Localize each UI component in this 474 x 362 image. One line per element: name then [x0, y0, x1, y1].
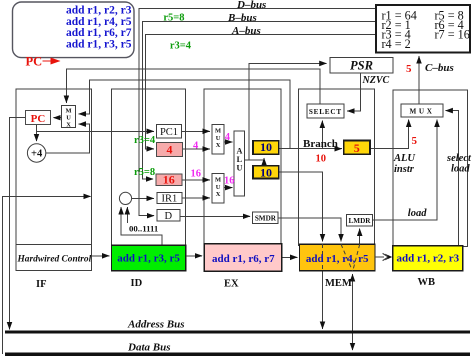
svg-text:select: select [446, 153, 472, 164]
wire ALU result up to latch10 [263, 158, 265, 166]
svg-text:10: 10 [316, 154, 327, 165]
wire LMDR to WB MUX [372, 120, 437, 220]
MUX1 label [215, 128, 221, 150]
MEMWB register box [393, 246, 463, 271]
svg-text:ALU: ALU [393, 153, 416, 164]
wire D to SMDR [180, 215, 250, 217]
svg-text:M: M [215, 128, 221, 135]
stage box IF [16, 89, 91, 271]
latch 16 box [156, 174, 182, 185]
svg-text:X: X [216, 142, 221, 149]
svg-text:Branch: Branch [303, 138, 338, 150]
IDEX register box [204, 244, 282, 271]
svg-text:4: 4 [167, 143, 173, 157]
IFID register box [111, 245, 185, 270]
wire hardwired control to IFID register [91, 255, 109, 257]
svg-text:B–bus: B–bus [227, 12, 257, 24]
svg-text:MEM: MEM [325, 278, 352, 289]
wire D-bus [139, 9, 376, 216]
PC pointer red arrow [43, 60, 60, 62]
svg-text:5: 5 [354, 141, 360, 155]
ALU box [234, 131, 244, 196]
wire IFID reg to mask circle [121, 207, 162, 245]
wire EXMEM to MEMWB feathered arrow [375, 256, 384, 258]
wire IFID to IDEX [186, 255, 202, 257]
green value labels [134, 13, 192, 178]
adder +4 circle [27, 144, 45, 162]
stage box EX [204, 89, 281, 246]
stage box ID [111, 89, 185, 246]
svg-text:load: load [408, 208, 427, 219]
instruction text lines [66, 5, 132, 51]
svg-text:PC: PC [31, 113, 46, 125]
svg-text:00..1111: 00..1111 [129, 224, 158, 234]
svg-text:Data Bus: Data Bus [127, 341, 171, 353]
wire MUX1 to ALU [224, 141, 233, 143]
svg-text:add r1, r3, r5: add r1, r3, r5 [117, 253, 180, 265]
wire adder loop to MUX [46, 124, 90, 153]
wire MEM address to address bus [322, 271, 324, 329]
wire PC to address bus [10, 118, 26, 330]
svg-text:LMDR: LMDR [349, 217, 372, 225]
svg-text:10: 10 [260, 140, 272, 154]
wire select load to WB MUX [446, 111, 459, 247]
PC1 box [157, 124, 182, 138]
mask circle [119, 192, 131, 204]
svg-text:C–bus: C–bus [425, 62, 454, 74]
PSR box [330, 58, 393, 73]
wire MEM reg dashed data passthrough [341, 244, 353, 271]
svg-text:instr: instr [394, 164, 415, 175]
wire data bus to IF [2, 196, 90, 354]
wire ALU result to MEM register [279, 172, 323, 241]
wire PC1 to MUX1 [182, 130, 210, 132]
hardwired control divider [16, 243, 91, 245]
instruction memory box [13, 2, 135, 58]
wire B-bus [143, 22, 377, 180]
wire NZVC to SELECT [347, 73, 360, 111]
svg-text:MUX: MUX [410, 107, 435, 115]
register file values [382, 9, 470, 52]
svg-text:Address Bus: Address Bus [127, 319, 185, 331]
svg-text:IR1: IR1 [162, 194, 178, 205]
wire memory data double arrow [352, 274, 354, 350]
ALU instr label [393, 153, 472, 219]
wire masked instr to IR1 [132, 197, 154, 199]
fetch MUX label [65, 107, 71, 128]
svg-text:M: M [215, 177, 221, 184]
bus labels [227, 0, 454, 74]
EXMEM register box [300, 244, 376, 271]
svg-text:r4 = 2: r4 = 2 [382, 37, 411, 51]
svg-text:5: 5 [406, 63, 412, 75]
wire MUX2 to ALU [224, 187, 233, 189]
svg-text:4: 4 [225, 132, 231, 143]
svg-text:IF: IF [36, 279, 47, 290]
svg-text:A–bus: A–bus [231, 25, 261, 37]
SELECT box [307, 104, 344, 118]
wire MEM register to LMDR [359, 229, 361, 245]
wire branch target to fetch MUX [79, 80, 290, 149]
svg-text:add r1, r2, r3: add r1, r2, r3 [66, 5, 132, 17]
MUX2 box [212, 173, 224, 203]
svg-text:D–bus: D–bus [236, 0, 266, 11]
svg-text:PSR: PSR [350, 58, 373, 72]
svg-text:load: load [451, 164, 470, 175]
wire select to fetch MUX top [66, 69, 320, 104]
wire ALU out [245, 159, 265, 161]
svg-text:X: X [66, 121, 71, 128]
svg-text:X: X [216, 191, 221, 198]
stage labels [36, 277, 435, 290]
svg-text:10: 10 [260, 165, 272, 179]
svg-text:5: 5 [412, 135, 418, 147]
wire MUX to PC [53, 117, 61, 119]
MUX2 label [215, 177, 221, 199]
svg-text:PC1: PC1 [160, 127, 178, 138]
svg-text:add r1, r6, r7: add r1, r6, r7 [66, 27, 132, 39]
wire branch value to MEM 5 [279, 148, 342, 150]
D box [157, 210, 180, 221]
svg-text:U: U [216, 135, 221, 142]
svg-text:r7 = 16: r7 = 16 [435, 28, 470, 42]
svg-text:SELECT: SELECT [309, 108, 342, 116]
svg-text:r3=4: r3=4 [170, 40, 192, 51]
svg-text:M: M [65, 107, 71, 114]
PC box [26, 111, 51, 125]
wire IDEX to EXMEM [283, 256, 298, 258]
LMDR box [347, 214, 373, 226]
wire PC to PC1 [37, 130, 154, 132]
stage box WB [393, 90, 468, 247]
wire PC down to adder [36, 125, 38, 142]
wire branch up to SELECT [321, 121, 323, 149]
magenta value labels [191, 132, 235, 187]
svg-text:add r1, r6, r7: add r1, r6, r7 [212, 253, 275, 265]
svg-text:16: 16 [163, 172, 175, 186]
svg-text:add r1, r4, r5: add r1, r4, r5 [306, 253, 369, 265]
svg-text:U: U [216, 184, 221, 191]
wire 5 to WB MUX [370, 120, 409, 149]
svg-text:add r1, r2, r3: add r1, r2, r3 [396, 253, 459, 265]
svg-text:4: 4 [193, 140, 199, 151]
latch 5 box [344, 141, 370, 155]
latch 4 box [157, 143, 183, 157]
wire ALU to PSR [249, 63, 327, 160]
wire SMDR to MEM register [278, 218, 341, 241]
register file box [376, 5, 470, 53]
wire C-bus MUX to registers [418, 56, 420, 103]
fetch MUX box [62, 106, 76, 128]
svg-text:WB: WB [418, 277, 436, 288]
svg-text:add r1, r3, r5: add r1, r3, r5 [66, 38, 132, 50]
MUX1 box [212, 124, 224, 154]
svg-text:U: U [236, 164, 242, 173]
svg-text:+4: +4 [31, 148, 43, 159]
latch 10 top box [253, 141, 279, 155]
wire A-bus [146, 35, 377, 149]
svg-text:NZVC: NZVC [362, 75, 390, 86]
stage box MEM [299, 89, 375, 245]
wire MEM reg dashed address passthrough [322, 244, 324, 271]
svg-text:r5=8: r5=8 [163, 13, 184, 24]
wire 4 to MUX1 [183, 148, 210, 150]
data bus line [5, 353, 470, 356]
svg-text:U: U [66, 114, 71, 121]
wire IR1 to MUX2 [182, 197, 210, 199]
svg-text:EX: EX [224, 279, 239, 290]
svg-text:PC: PC [26, 55, 43, 69]
svg-text:r5=8: r5=8 [134, 167, 155, 178]
wire 16 to MUX2 [182, 179, 210, 181]
wire MEM reg dashed load passthrough [353, 244, 360, 271]
svg-text:16: 16 [191, 168, 202, 179]
svg-text:add r1, r4, r5: add r1, r4, r5 [66, 16, 132, 28]
wire mask constant to circle [126, 207, 128, 223]
latch 10 bottom box [253, 166, 279, 179]
svg-text:16: 16 [224, 176, 235, 187]
ALU label [236, 147, 242, 173]
svg-text:D: D [165, 211, 173, 222]
IR1 box [157, 192, 182, 203]
WB MUX box [401, 104, 443, 117]
SMDR box [253, 212, 279, 224]
pipeline register instruction labels [117, 253, 459, 266]
svg-text:r3=4: r3=4 [134, 135, 156, 146]
svg-text:ID: ID [131, 278, 143, 289]
address bus line [5, 331, 470, 334]
svg-text:SMDR: SMDR [255, 215, 277, 223]
svg-text:Hardwired Control: Hardwired Control [17, 254, 92, 264]
